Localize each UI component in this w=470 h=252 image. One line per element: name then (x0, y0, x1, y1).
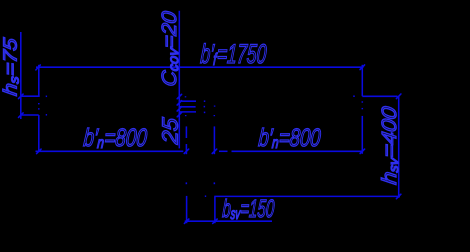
rib right edge dotted in flange (361, 101, 363, 102)
web right edge dotted in flange (214, 106, 216, 107)
dimension line b'f=1750 (36, 66, 364, 68)
dimension line b'n=800 left (36, 150, 184, 152)
dimension line h_f (vertical, left) (20, 32, 22, 119)
b_sv text shelf line (185, 220, 272, 222)
tick b_sv left (184, 219, 189, 223)
rebar 1 (179, 100, 196, 102)
tick h_f top (19, 94, 24, 99)
extension line left lower (b'n) (38, 115, 40, 151)
b_sv extension right (down from web corner) (214, 196, 216, 223)
extension line right of flange (361, 65, 363, 96)
flange top edge dotted continuation (46, 95, 47, 97)
tick h_sv bottom (396, 194, 401, 199)
web left edge dotted in flange (185, 96, 187, 97)
rebar 3 (179, 111, 196, 113)
ticks C_cov / 25 on vertical dimension line (177, 94, 181, 98)
svg-text:hsv=400: hsv=400 (377, 105, 401, 185)
web bottom edge dotted continuation (205, 195, 206, 197)
rebar 1 dot continuation (204, 100, 206, 102)
extension line left dotted through flange (38, 103, 40, 104)
svg-text:b′n=800: b′n=800 (258, 123, 323, 151)
tick b'f right (360, 65, 365, 70)
flange bottom edge dotted continuation (46, 114, 47, 116)
tick b'n left (37, 149, 42, 154)
web left edge dashed (185, 126, 187, 138)
extension line left upper (b'f) (38, 65, 40, 96)
flange top edge (left piece) (20, 95, 39, 97)
rebar 2 (179, 106, 195, 108)
tick b'n right end (360, 149, 365, 153)
tick h_sv top (396, 94, 401, 99)
svg-text:Ccov=20: Ccov=20 (158, 10, 181, 88)
dimension line b'n=800 right (232, 150, 363, 152)
tick h_f bottom (19, 113, 24, 118)
svg-text:25: 25 (158, 116, 182, 146)
web right edge dashed (213, 126, 215, 154)
svg-text:bsv=150: bsv=150 (222, 195, 276, 223)
tick chain right (web) (212, 149, 217, 153)
dimension line b'n=800 right (dash) (219, 150, 228, 152)
flange bottom edge (left piece) (20, 114, 38, 116)
svg-text:b′n=800: b′n=800 (82, 123, 148, 152)
flange top edge right piece / h_sv top extension (362, 95, 397, 97)
flange top edge dotted continuation (right) (353, 95, 355, 97)
tick chain left (web) (184, 149, 189, 153)
tick b'f left (36, 65, 40, 70)
rebar 3 dot continuation (204, 111, 206, 113)
dimension line h_sv=400 (vertical right) (398, 96, 400, 198)
rib right edge below flange (361, 116, 363, 154)
tick b_sv right (213, 219, 218, 223)
svg-text:hs=75: hs=75 (0, 36, 21, 96)
b_sv extension left (down from web corner) (186, 196, 188, 223)
svg-text:b′f=1750: b′f=1750 (200, 38, 268, 70)
web bottom extension to h_sv dimension (214, 195, 400, 197)
rebar 2 dot continuation (204, 106, 206, 108)
dimension line C_cov (vertical) (178, 11, 180, 149)
